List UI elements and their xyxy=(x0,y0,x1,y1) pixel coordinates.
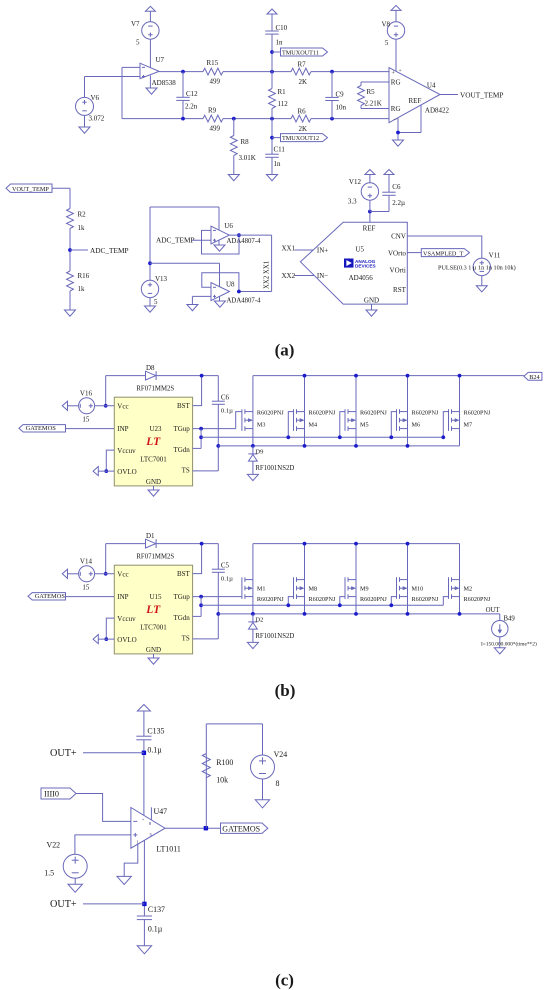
svg-text:M5: M5 xyxy=(360,421,369,428)
wire U4 output xyxy=(440,94,458,96)
svg-text:GATEMOS: GATEMOS xyxy=(26,425,57,432)
svg-text:TGdn: TGdn xyxy=(173,614,190,622)
svg-text:INP: INP xyxy=(117,425,128,433)
svg-text:GATEMOS: GATEMOS xyxy=(35,593,66,600)
ground under U23 xyxy=(148,490,159,496)
node dot BST rail xyxy=(200,542,204,546)
wire V24 xyxy=(262,724,264,755)
svg-text:R2: R2 xyxy=(78,211,87,219)
svg-text:DEVICES: DEVICES xyxy=(355,264,376,269)
node dot lower mid xyxy=(270,117,274,121)
wire Vccuv-OVLO xyxy=(106,450,114,471)
svg-text:2.2µ: 2.2µ xyxy=(392,199,405,207)
wire TGup row xyxy=(193,596,242,598)
resistor R8 xyxy=(233,119,235,136)
svg-text:V6: V6 xyxy=(91,94,100,102)
svg-text:D8: D8 xyxy=(146,364,155,372)
wire U6 output to XX loop xyxy=(229,234,271,236)
svg-text:D1: D1 xyxy=(146,532,155,540)
wire BST to rail xyxy=(193,544,202,574)
node dot drain M9 xyxy=(354,542,358,546)
svg-text:U8: U8 xyxy=(226,281,235,289)
wire source rail xyxy=(218,613,500,615)
node dot drain M8 xyxy=(303,542,307,546)
Analog Devices logo xyxy=(344,259,354,268)
svg-text:R6020PNJ: R6020PNJ xyxy=(309,596,336,603)
transistor M1 R6020PNJ xyxy=(252,544,254,614)
wire gate rail xyxy=(201,436,443,438)
net flag VSAMPLED_T xyxy=(407,252,421,254)
ADC block U5 AD4056 xyxy=(300,222,407,304)
svg-text:TGup: TGup xyxy=(173,425,190,433)
net flag IIII0 xyxy=(41,788,76,799)
ground under U15 xyxy=(148,658,159,664)
capacitor C10 xyxy=(271,14,273,31)
svg-text:10n: 10n xyxy=(336,104,347,112)
svg-text:RF1001NS2D: RF1001NS2D xyxy=(255,633,294,640)
ground V- U47 xyxy=(117,876,131,884)
svg-text:RF071MM2S: RF071MM2S xyxy=(136,554,174,561)
svg-text:XX2: XX2 xyxy=(282,272,296,280)
svg-text:V14: V14 xyxy=(80,557,93,565)
svg-text:RG: RG xyxy=(391,78,401,86)
svg-text:D9: D9 xyxy=(255,448,263,455)
wire R6 to U4 minus xyxy=(311,118,389,120)
node dot gate M5 xyxy=(338,435,342,439)
current source B49 xyxy=(499,614,501,621)
ground U8 plus xyxy=(187,305,198,311)
comparator U47 LT1011 xyxy=(131,808,165,849)
svg-text:U23: U23 xyxy=(150,425,163,433)
wire drain rail xyxy=(253,375,524,377)
svg-text:(b): (b) xyxy=(275,681,296,700)
ground under V6 xyxy=(84,115,86,127)
wire R9 to R6 xyxy=(223,118,291,120)
svg-text:M6: M6 xyxy=(412,421,421,428)
wire BST to rail xyxy=(193,376,202,406)
resistor R16 xyxy=(67,271,74,291)
svg-text:VSAMPLED_T: VSAMPLED_T xyxy=(423,250,463,257)
node dot REF gnd xyxy=(396,131,400,135)
wire IIII0 to minus input xyxy=(76,794,131,822)
node dot source M10 xyxy=(406,612,410,616)
node dot source M9 xyxy=(354,612,358,616)
svg-text:R1: R1 xyxy=(278,88,287,96)
ground under U8 xyxy=(219,297,221,302)
svg-text:CNV: CNV xyxy=(391,233,406,241)
wire GND pin xyxy=(153,486,155,490)
wire V- to ground xyxy=(124,844,138,876)
svg-text:R6020PNJ: R6020PNJ xyxy=(412,409,439,416)
svg-text:OUT: OUT xyxy=(486,607,501,614)
node dot gate rail tap xyxy=(199,435,203,439)
svg-text:0.1µ: 0.1µ xyxy=(147,746,162,755)
power flag C135 xyxy=(137,705,150,712)
wire V22 to plus input xyxy=(75,835,131,854)
svg-text:1n: 1n xyxy=(274,160,282,168)
svg-text:B24: B24 xyxy=(529,374,539,381)
svg-text:REF: REF xyxy=(409,97,422,105)
ground under V24 xyxy=(255,800,269,808)
svg-text:5: 5 xyxy=(385,39,389,47)
capacitor C137 xyxy=(137,915,152,917)
svg-text:C12: C12 xyxy=(186,90,198,98)
svg-text:U5: U5 xyxy=(356,246,365,254)
ground left of V16 xyxy=(62,401,67,410)
wire TS pin xyxy=(193,638,219,640)
resistor R9 xyxy=(203,115,223,122)
ground under U4 xyxy=(393,140,404,146)
wire R7 to U4 xyxy=(311,71,389,73)
svg-text:3.072: 3.072 xyxy=(89,115,105,123)
capacitor C6 0.1u xyxy=(217,376,219,401)
voltage source V11 xyxy=(473,258,490,275)
node dot ADC_TEMP xyxy=(68,248,72,252)
svg-text:ADC_TEMP: ADC_TEMP xyxy=(156,236,195,245)
net flag GATEMOS xyxy=(28,593,66,600)
wire gate rail xyxy=(201,604,443,606)
ground under V22 xyxy=(68,884,82,892)
svg-text:1k: 1k xyxy=(78,285,86,293)
svg-text:C11: C11 xyxy=(274,146,286,154)
svg-text:V22: V22 xyxy=(47,840,61,849)
node dot drain M7 xyxy=(458,374,462,378)
svg-text:R100: R100 xyxy=(216,758,233,767)
wire OUT+ bottom xyxy=(83,903,144,905)
wire R100 top rail xyxy=(205,724,207,828)
capacitor C11 xyxy=(265,153,278,155)
svg-text:ADA4807-4: ADA4807-4 xyxy=(227,297,262,304)
wire lower line left xyxy=(122,118,203,120)
svg-text:V7: V7 xyxy=(131,20,140,28)
ground left of OVLO xyxy=(93,467,98,476)
svg-text:1k: 1k xyxy=(78,224,86,232)
svg-text:2K: 2K xyxy=(299,78,308,86)
node dot OUT+ top xyxy=(142,751,146,755)
voltage source V12 xyxy=(369,200,371,211)
node dot C/source rail xyxy=(216,612,220,616)
net flag TMUXOUT12 xyxy=(272,137,281,139)
svg-text:C9: C9 xyxy=(336,91,345,99)
svg-text:M2: M2 xyxy=(464,586,473,593)
svg-text:R6020PNJ: R6020PNJ xyxy=(360,596,387,603)
svg-text:499: 499 xyxy=(210,78,221,86)
node dot source M8 xyxy=(303,612,307,616)
svg-text:LT: LT xyxy=(145,436,161,448)
node dot source M5 xyxy=(354,444,358,448)
node dot gate M7 xyxy=(441,435,445,439)
node dot Vcc xyxy=(104,572,108,576)
svg-text:0.1µ: 0.1µ xyxy=(148,925,163,934)
wire TGup row xyxy=(193,428,236,430)
svg-text:V8: V8 xyxy=(382,21,391,29)
node dot R8 tap xyxy=(232,117,236,121)
svg-text:C10: C10 xyxy=(276,24,288,32)
net flag TMUXOUT11 xyxy=(272,51,281,53)
svg-text:R6020PNJ: R6020PNJ xyxy=(257,409,284,416)
svg-text:2K: 2K xyxy=(299,125,308,133)
voltage source V14 xyxy=(79,566,95,582)
svg-text:OVLO: OVLO xyxy=(117,636,136,644)
svg-text:M4: M4 xyxy=(309,421,318,428)
svg-text:M1: M1 xyxy=(257,586,266,593)
node dot source M4 xyxy=(303,444,307,448)
svg-text:V16: V16 xyxy=(80,389,93,397)
wire TS pin xyxy=(193,470,219,472)
svg-text:15: 15 xyxy=(82,415,90,423)
svg-text:10k: 10k xyxy=(216,776,228,785)
voltage source V16 xyxy=(79,398,95,414)
power flag C10 xyxy=(267,9,277,14)
svg-text:V13: V13 xyxy=(155,275,168,283)
transistor M3 R6020PNJ xyxy=(252,376,254,446)
svg-text:R6: R6 xyxy=(298,108,307,116)
node dot source M3 xyxy=(251,444,255,448)
node dot OUT+ bottom xyxy=(142,902,146,906)
svg-text:ADA4807-4: ADA4807-4 xyxy=(227,238,262,245)
transistor M7 R6020PNJ xyxy=(459,376,461,446)
svg-text:112: 112 xyxy=(278,100,289,108)
diode D8 rail xyxy=(106,375,146,377)
op-amp U6 ADA4807-4 xyxy=(211,226,229,244)
node dot source M6 xyxy=(406,444,410,448)
svg-text:Vcc: Vcc xyxy=(117,570,128,578)
node dot out U7 xyxy=(181,70,185,74)
svg-text:U15: U15 xyxy=(150,593,163,601)
node dot drain M5 xyxy=(354,374,358,378)
svg-text:AD8422: AD8422 xyxy=(425,106,450,114)
svg-text:XX2 XX1: XX2 XX1 xyxy=(264,261,271,289)
resistor R100 xyxy=(202,754,210,778)
wire TGdn row xyxy=(193,615,202,617)
svg-text:B49: B49 xyxy=(504,616,516,623)
wire gate lead M8 xyxy=(288,597,293,606)
svg-text:R6020PNJ: R6020PNJ xyxy=(309,409,336,416)
ground under R8 xyxy=(228,175,239,181)
wire CNV to V11 xyxy=(407,236,482,258)
diode D1 RF071MM2S xyxy=(146,539,156,548)
svg-text:R5: R5 xyxy=(367,88,376,96)
wire drain rail xyxy=(253,543,460,545)
svg-text:RG: RG xyxy=(391,105,401,113)
svg-text:IN+: IN+ xyxy=(317,247,328,255)
transistor M4 R6020PNJ xyxy=(304,376,306,446)
svg-text:2.21K: 2.21K xyxy=(365,100,382,108)
svg-text:M8: M8 xyxy=(309,586,318,593)
svg-text:M9: M9 xyxy=(360,586,369,593)
svg-text:R16: R16 xyxy=(78,272,90,280)
svg-text:M3: M3 xyxy=(257,421,266,428)
node dot TGup xyxy=(199,595,203,599)
gate driver U15 LTC7001 xyxy=(114,565,192,654)
diode D8 RF071MM2S xyxy=(146,371,156,380)
svg-text:Vccuv: Vccuv xyxy=(117,615,136,623)
wire U8 plus to ground xyxy=(192,295,211,297)
svg-text:C137: C137 xyxy=(148,905,165,914)
node dot V13 rail xyxy=(148,261,152,265)
svg-text:XX1: XX1 xyxy=(282,245,296,253)
svg-text:TGdn: TGdn xyxy=(173,446,190,454)
node dot gate M4 xyxy=(286,435,290,439)
ground under C11 xyxy=(267,175,278,181)
wire GND pin xyxy=(153,654,155,658)
wire feedback vertical xyxy=(121,67,123,118)
node dot drain M6 xyxy=(406,374,410,378)
svg-text:OVLO: OVLO xyxy=(117,468,136,476)
ground under B49 xyxy=(494,648,505,654)
svg-text:C6: C6 xyxy=(392,183,401,191)
svg-text:C135: C135 xyxy=(147,727,164,736)
node dot gate rail tap xyxy=(199,603,203,607)
resistor R7 xyxy=(291,68,311,75)
wire pin1 to C137 xyxy=(143,840,145,916)
resistor R5 loop xyxy=(361,81,389,83)
svg-text:GND: GND xyxy=(146,646,161,654)
svg-text:M7: M7 xyxy=(464,421,473,428)
svg-text:U7: U7 xyxy=(156,56,165,64)
transistor M2 R6020PNJ xyxy=(459,544,461,614)
svg-text:3.01K: 3.01K xyxy=(239,154,256,162)
net flag VOUT_TEMP (divider) xyxy=(6,184,52,192)
ground under C137 xyxy=(137,946,151,954)
diode D2 RF1001NS2D xyxy=(252,614,254,622)
svg-text:Vccuv: Vccuv xyxy=(117,447,136,455)
svg-text:REF: REF xyxy=(363,225,376,233)
svg-text:R6020PNJ: R6020PNJ xyxy=(257,596,284,603)
node dot top mid xyxy=(270,70,274,74)
ground left of OVLO xyxy=(93,635,98,644)
wire GND pin U5 xyxy=(371,304,373,310)
svg-text:LTC7001: LTC7001 xyxy=(140,624,167,632)
capacitor C12 xyxy=(182,72,184,98)
svg-text:1n: 1n xyxy=(276,39,284,47)
node dot C9 bottom xyxy=(330,117,334,121)
wire OUT+ top xyxy=(83,752,144,754)
wire U47 output xyxy=(165,827,221,829)
node dot gate M9 xyxy=(338,603,342,607)
voltage source V8 xyxy=(391,5,401,10)
svg-text:Vcc: Vcc xyxy=(117,402,128,410)
wire gate lead M9 xyxy=(340,597,345,606)
svg-text:+: + xyxy=(142,816,145,821)
svg-text:U6: U6 xyxy=(224,222,233,230)
transistor M8 R6020PNJ xyxy=(304,544,306,614)
net flag GATEMOS xyxy=(19,425,66,432)
svg-text:R9: R9 xyxy=(208,107,217,115)
svg-text:R6020PNJ: R6020PNJ xyxy=(464,596,491,603)
op-amp U7 xyxy=(140,63,159,78)
wire V13 rail xyxy=(149,207,151,280)
node dot gate M6 xyxy=(389,435,393,439)
voltage source V7 xyxy=(142,22,159,39)
wire TGup-TGdn vertical xyxy=(200,597,202,617)
gate driver U23 LTC7001 xyxy=(114,397,192,486)
svg-text:M10: M10 xyxy=(412,586,424,593)
voltage source V22 xyxy=(63,854,87,878)
ground under U7 xyxy=(149,76,151,88)
voltage source V6 xyxy=(84,77,86,98)
wire R15 to R7 xyxy=(223,71,291,73)
wire gate lead M2 xyxy=(443,597,448,606)
svg-text:VOUT_TEMP: VOUT_TEMP xyxy=(12,186,49,193)
node dot V12/C6 xyxy=(368,210,372,214)
node dot GATEMOS xyxy=(204,826,208,830)
svg-text:499: 499 xyxy=(210,125,221,133)
capacitor C6 (2.2u) xyxy=(370,211,389,213)
svg-text:I=150.000.000*(time**2): I=150.000.000*(time**2) xyxy=(481,641,537,648)
node dot OVLO xyxy=(104,637,108,641)
svg-text:GND: GND xyxy=(146,478,161,486)
svg-text:AD4056: AD4056 xyxy=(349,274,374,282)
svg-text:VOrto: VOrto xyxy=(388,250,406,258)
wire U8 feedback xyxy=(202,273,239,292)
svg-text:(c): (c) xyxy=(275,971,294,990)
node dot BST rail xyxy=(200,374,204,378)
wire V6 to U7 plus input xyxy=(85,76,141,78)
svg-text:RF071MM2S: RF071MM2S xyxy=(136,386,174,393)
ground left of V14 xyxy=(62,569,67,578)
resistor R6 xyxy=(291,115,311,122)
wire V7 to U7 supply xyxy=(149,39,151,67)
resistor R1 xyxy=(269,89,276,109)
capacitor C9 xyxy=(331,72,333,98)
net label ADC_TEMP (divider) xyxy=(70,249,88,251)
node dot source M1 xyxy=(251,612,255,616)
svg-text:0.1µ: 0.1µ xyxy=(221,576,233,583)
svg-text:5: 5 xyxy=(136,39,140,47)
svg-text:TGup: TGup xyxy=(173,593,190,601)
svg-text:0.1µ: 0.1µ xyxy=(221,408,233,415)
svg-text:OUT+: OUT+ xyxy=(50,748,77,759)
node dot C9 top xyxy=(330,70,334,74)
REF wire and supply ground U4 xyxy=(420,105,422,132)
svg-text:V11: V11 xyxy=(489,252,501,260)
transistor M6 R6020PNJ xyxy=(407,376,409,446)
svg-text:LTC7001: LTC7001 xyxy=(140,456,167,464)
svg-text:R6020PNJ: R6020PNJ xyxy=(412,596,439,603)
node dot drain M10 xyxy=(406,542,410,546)
svg-text:3.3: 3.3 xyxy=(348,198,357,206)
capacitor C5 0.1u xyxy=(217,544,219,569)
transistor M5 R6020PNJ xyxy=(355,376,357,446)
svg-text:BST: BST xyxy=(177,570,191,578)
node dot TMUXOUT12 xyxy=(270,136,274,140)
wire REF pin xyxy=(369,212,371,223)
svg-text:U4: U4 xyxy=(427,81,436,89)
wire gate lead M3 xyxy=(236,412,242,429)
wire gate lead M4 xyxy=(288,412,293,438)
diode D1 rail xyxy=(106,543,146,545)
node dot TGup xyxy=(199,427,203,431)
wire gate lead M6 xyxy=(391,412,396,438)
svg-text:V24: V24 xyxy=(274,750,288,759)
svg-text:TS: TS xyxy=(182,467,190,475)
node dot C/source rail xyxy=(216,444,220,448)
wire U7 output xyxy=(159,71,203,73)
capacitor C135 xyxy=(143,711,145,736)
node dot U8 out xyxy=(237,290,241,294)
node dot drain M4 xyxy=(303,374,307,378)
wire gate lead M10 xyxy=(391,597,396,606)
node dot gate M10 xyxy=(389,603,393,607)
svg-text:TMUXOUT12: TMUXOUT12 xyxy=(282,135,319,142)
node dot C12 bottom xyxy=(181,117,185,121)
svg-text:VOUT_TEMP: VOUT_TEMP xyxy=(460,91,503,100)
node dot TMUXOUT11 xyxy=(270,50,274,54)
svg-text:BST: BST xyxy=(177,402,191,410)
wire Vcc rail left xyxy=(105,376,107,406)
node dot source M2 xyxy=(458,612,462,616)
